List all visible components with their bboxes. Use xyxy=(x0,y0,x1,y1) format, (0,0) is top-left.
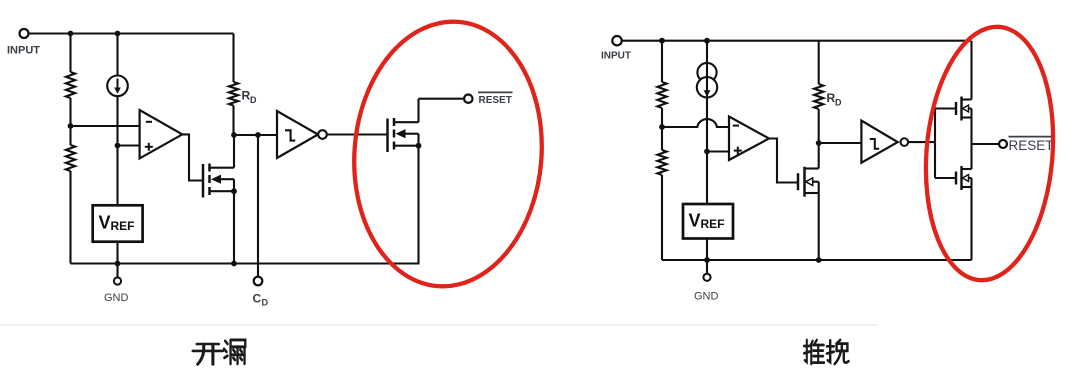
svg-text:GND: GND xyxy=(694,291,719,303)
svg-text:C: C xyxy=(253,292,262,306)
svg-text:INPUT: INPUT xyxy=(601,51,631,62)
svg-text:RESET: RESET xyxy=(1009,138,1054,153)
svg-text:D: D xyxy=(250,95,257,105)
svg-text:RESET: RESET xyxy=(479,95,512,106)
svg-text:D: D xyxy=(835,98,842,108)
svg-text:D: D xyxy=(262,298,269,308)
svg-text:GND: GND xyxy=(104,292,129,304)
svg-text:INPUT: INPUT xyxy=(7,45,40,57)
